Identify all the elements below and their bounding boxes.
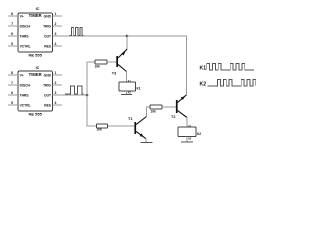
svg-text:K2: K2 [197, 132, 201, 136]
IC2 pin 1 GND [44, 71, 62, 77]
wire node B up to R1 [87, 62, 95, 95]
svg-text:TRIG: TRIG [43, 83, 51, 87]
wire node A to top-right corner [127, 36, 187, 95]
svg-text:7: 7 [11, 81, 13, 85]
IC2 pin 4 RES [44, 101, 62, 107]
wire R1 to T3 base [107, 61, 116, 63]
svg-text:V+: V+ [20, 73, 24, 77]
svg-text:NE 555: NE 555 [29, 53, 43, 58]
wire T1 emitter to ground [145, 139, 147, 142]
IC2 NE555 timer body [18, 66, 53, 116]
svg-text:2: 2 [55, 22, 57, 26]
svg-text:7: 7 [11, 22, 13, 26]
wire node B down to R2 [87, 95, 97, 126]
svg-text:1: 1 [55, 71, 57, 75]
svg-text:RES: RES [44, 44, 52, 48]
IC1 pin 4 RES [44, 42, 62, 48]
IC1 pin 1 GND [44, 12, 62, 18]
svg-text:10k: 10k [151, 110, 157, 114]
IC2 pin 3 OUT [44, 91, 56, 97]
svg-text:T3: T3 [112, 72, 116, 76]
svg-text:2: 2 [55, 81, 57, 85]
svg-text:RES: RES [44, 103, 52, 107]
IC2 pin 6 THRS [8, 91, 29, 97]
K2 burst waveform [208, 80, 256, 87]
svg-text:5: 5 [11, 42, 13, 46]
svg-text:10k: 10k [97, 128, 103, 132]
svg-text:IC: IC [36, 7, 40, 11]
svg-text:TIMER: TIMER [29, 13, 42, 18]
resistor R3 10k (base of T2) [150, 105, 162, 114]
svg-text:GND: GND [44, 14, 52, 18]
node A junction dot [126, 35, 129, 38]
svg-text:TIMER: TIMER [29, 72, 42, 77]
svg-text:6: 6 [11, 91, 13, 95]
IC2 pin 8 V+ [8, 71, 24, 77]
IC1 pin 5 VCTRL [8, 42, 31, 48]
svg-text:5: 5 [11, 101, 13, 105]
ground below K1 [121, 94, 132, 96]
wire IC1 OUT to node A [53, 35, 128, 37]
pulse waveform symbol on IC2 OUT [65, 86, 84, 94]
svg-text:OUT: OUT [44, 93, 51, 97]
svg-text:GND: GND [44, 73, 52, 77]
IC1 pin 8 V+ [8, 12, 24, 18]
transistor T2 [171, 95, 187, 119]
ground below T1 [140, 141, 152, 143]
svg-text:T2: T2 [171, 115, 175, 119]
IC2 pin 7 DISCH [8, 81, 30, 87]
IC1 pin 6 THRS [8, 32, 29, 38]
svg-text:8: 8 [11, 12, 13, 16]
svg-text:THRS: THRS [20, 34, 30, 38]
pulse waveform symbol on IC1 OUT [70, 28, 84, 36]
wire node A down to T3 emitter [126, 36, 128, 50]
resistor R2 10k (base of T1) [97, 124, 108, 132]
svg-text:4: 4 [55, 101, 57, 105]
svg-text:4: 4 [55, 42, 57, 46]
K1 burst waveform [207, 64, 254, 71]
svg-text:8: 8 [11, 71, 13, 75]
wire R2 to T1 base [108, 125, 135, 127]
transistor T3 [112, 49, 127, 75]
IC1 pin 7 DISCH [8, 22, 30, 28]
svg-text:TRIG: TRIG [43, 24, 51, 28]
wire K1 to ground [126, 91, 128, 94]
wire K2 to ground [186, 137, 188, 142]
wire T3 collector to relay K1 [126, 72, 128, 83]
svg-text:DISCH: DISCH [20, 24, 31, 28]
svg-text:K2: K2 [200, 82, 207, 88]
svg-text:VCTRL: VCTRL [20, 44, 31, 48]
svg-text:DISCH: DISCH [20, 83, 31, 87]
wire R3 to T2 base [162, 106, 176, 108]
svg-text:K1: K1 [137, 86, 141, 90]
svg-text:VCTRL: VCTRL [20, 103, 31, 107]
wire T2 collector to relay K2 [186, 118, 188, 128]
node B junction dot [86, 94, 89, 97]
wire T1 collector up to R3 [147, 107, 151, 117]
svg-text:K1: K1 [200, 66, 207, 72]
svg-text:10k: 10k [95, 65, 101, 69]
IC1 pin 2 TRIG [43, 22, 62, 28]
IC2 pin 2 TRIG [43, 81, 62, 87]
svg-text:THRS: THRS [20, 93, 30, 97]
svg-text:6: 6 [11, 32, 13, 36]
wire IC2 OUT to node B [53, 94, 88, 96]
IC1 pin 3 OUT [44, 32, 56, 38]
svg-text:OUT: OUT [44, 34, 51, 38]
svg-text:1: 1 [55, 12, 57, 16]
ground below K2 [181, 141, 193, 143]
relay K2 coil [178, 125, 201, 141]
svg-text:IC: IC [36, 66, 40, 70]
relay K1 coil [119, 80, 141, 94]
IC1 NE555 timer body [18, 7, 53, 58]
svg-text:NE 555: NE 555 [29, 111, 43, 116]
IC2 pin 5 VCTRL [8, 101, 31, 107]
svg-text:T1: T1 [128, 117, 132, 121]
svg-text:V+: V+ [20, 14, 24, 18]
resistor R1 10k (base of T3) [95, 60, 108, 69]
transistor T1 [128, 117, 147, 139]
